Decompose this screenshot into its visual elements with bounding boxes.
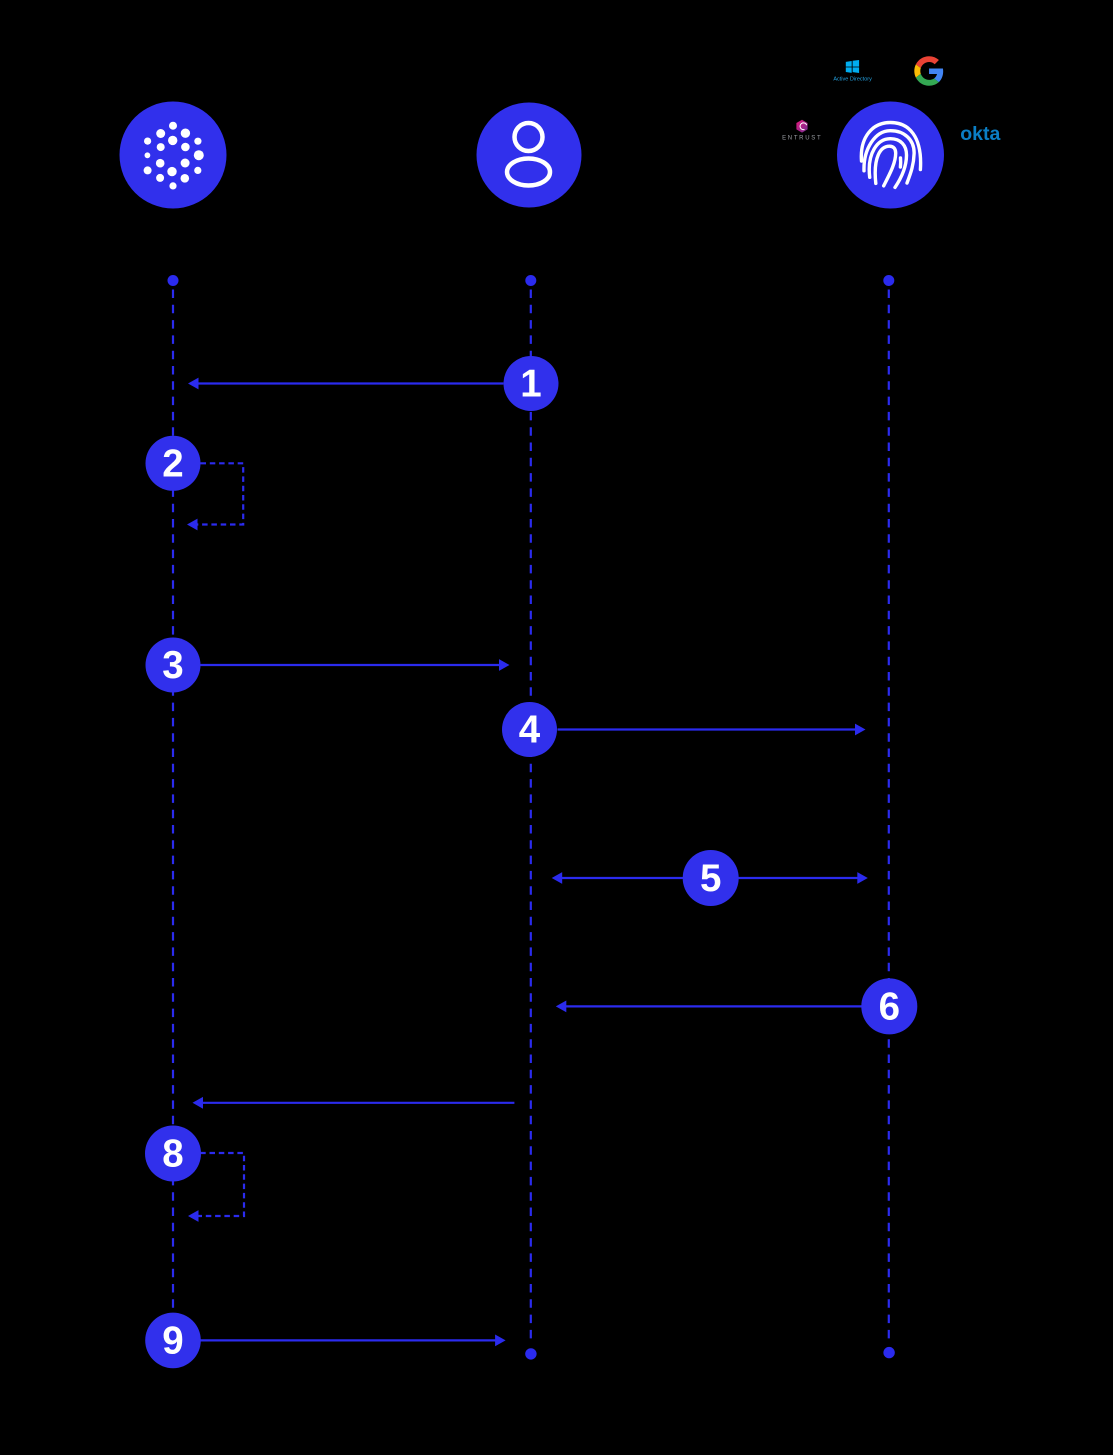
- svg-text:5: 5: [700, 857, 721, 900]
- svg-text:2: 2: [162, 442, 183, 485]
- svg-text:ENTRUST: ENTRUST: [782, 135, 822, 141]
- svg-text:3: 3: [162, 644, 183, 687]
- svg-text:1: 1: [520, 363, 541, 406]
- svg-text:4: 4: [519, 709, 541, 752]
- svg-text:8: 8: [162, 1133, 183, 1176]
- svg-text:okta: okta: [960, 123, 1000, 145]
- svg-text:6: 6: [879, 985, 900, 1028]
- svg-text:9: 9: [162, 1319, 183, 1362]
- svg-text:Active Directory: Active Directory: [833, 76, 872, 82]
